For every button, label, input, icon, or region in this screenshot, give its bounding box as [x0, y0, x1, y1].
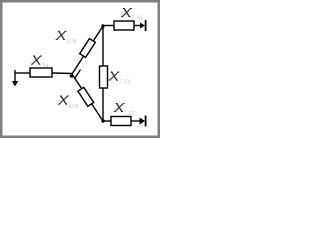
resistor X_7.35: [111, 117, 131, 126]
svg-text:7.33: 7.33: [119, 79, 131, 86]
node E junction: [101, 119, 104, 122]
resistor X_7.34: [114, 21, 134, 30]
wire: [15, 72, 31, 74]
svg-text:U/B: U/B: [66, 39, 77, 46]
label X_7.33: [109, 72, 131, 86]
resistor X_TA: [30, 68, 52, 77]
terminal Q (left feeder arrow): [12, 70, 18, 87]
terminal bar E: [145, 116, 147, 127]
svg-text:7.34: 7.34: [131, 15, 143, 22]
wire (vertical from node B): [102, 26, 104, 66]
node K (star point): [70, 74, 74, 78]
wire: [103, 120, 111, 122]
label X_7.34: [121, 9, 143, 22]
wire: [134, 25, 141, 27]
resistor X_7.33 (vertical): [100, 66, 108, 88]
node B junction: [101, 24, 104, 27]
label X_7.35: [114, 104, 136, 117]
label X_TA: [31, 56, 49, 70]
resistor X_U/B (tilted): [80, 39, 96, 58]
wire: [52, 72, 72, 75]
label X_U/B: [56, 31, 77, 45]
wire: [131, 120, 141, 122]
wire (lower diagonal): [72, 74, 103, 121]
current tick on upper branch: [75, 70, 81, 79]
terminal bar B: [145, 20, 147, 31]
wire (upper diagonal): [72, 26, 103, 74]
wire: [103, 25, 114, 27]
arrowhead at terminal B: [140, 23, 145, 29]
border frame: [1, 1, 159, 137]
svg-text:7.35: 7.35: [124, 110, 136, 117]
resistor X_U/E (tilted): [78, 87, 94, 106]
wire (vertical to node E): [102, 88, 104, 121]
arrowhead at terminal E: [140, 118, 146, 125]
svg-text:U/E: U/E: [69, 103, 80, 110]
svg-text:TA: TA: [42, 63, 49, 70]
label X_U/E: [58, 96, 79, 110]
